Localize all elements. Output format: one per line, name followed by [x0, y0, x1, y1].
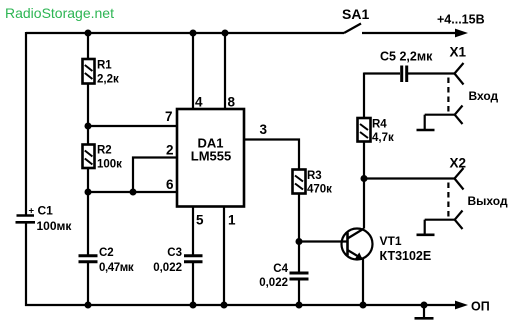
capacitor C1 labels	[37, 204, 73, 234]
switch SA1 blade	[344, 24, 361, 34]
connector X2 pin	[455, 168, 464, 190]
wire pin 6	[88, 191, 177, 193]
svg-text:8: 8	[228, 95, 236, 110]
svg-text:LM555: LM555	[191, 149, 231, 164]
svg-text:2: 2	[166, 143, 174, 158]
ground X1	[417, 115, 435, 130]
svg-text:C4: C4	[273, 263, 288, 275]
pin 8 label	[228, 95, 236, 110]
wire R3 bottom to C4	[298, 194, 300, 274]
svg-text:C5 2,2мк: C5 2,2мк	[380, 50, 433, 64]
switch SA1 label	[342, 6, 369, 22]
wire pin 3	[244, 140, 299, 170]
wire pin 8	[224, 33, 226, 109]
wire R4 top to C5 corner	[364, 73, 400, 119]
svg-text:0,47мк: 0,47мк	[99, 262, 134, 274]
connector X1 pin	[455, 63, 464, 85]
op-amp U1 timer DA1 labels	[191, 136, 231, 164]
resistor R1	[83, 59, 95, 84]
node Vyhod label	[468, 194, 508, 208]
capacitor C5	[402, 66, 407, 83]
svg-text:4,7к: 4,7к	[372, 132, 394, 144]
svg-text:R3: R3	[307, 170, 322, 182]
wire bottom rail	[25, 304, 456, 306]
resistor R2	[83, 145, 95, 169]
wire X2	[364, 177, 455, 179]
svg-text:100мк: 100мк	[37, 219, 73, 233]
node OP label	[471, 300, 490, 314]
node +4...15V arrowhead	[455, 29, 468, 38]
wire R2 bottom through node to C2	[87, 168, 89, 256]
svg-text:VT1: VT1	[380, 234, 402, 248]
resistor R3 labels	[307, 170, 332, 196]
svg-text:2,2к: 2,2к	[97, 74, 119, 86]
capacitor C3	[184, 256, 203, 262]
pin 5 label	[196, 213, 204, 228]
wire pin 4	[192, 33, 194, 109]
svg-text:6: 6	[166, 177, 174, 192]
svg-text:+: +	[29, 206, 35, 217]
node junction base	[296, 238, 303, 245]
pin 1 label	[228, 213, 236, 228]
connector X2 mate	[425, 211, 463, 230]
node junction top rail pin8	[222, 30, 229, 37]
svg-text:R2: R2	[97, 145, 112, 157]
wire left rail lower	[25, 222, 27, 306]
resistor R4	[358, 118, 371, 142]
pin 7 label	[165, 109, 173, 124]
transistor Q1 VT1	[342, 229, 373, 261]
node junction pin1 bottom rail	[221, 302, 228, 309]
node junction pin7	[85, 123, 92, 130]
pin 2 label	[166, 143, 174, 158]
wire X1 dashed	[447, 78, 449, 113]
svg-text:SA1: SA1	[342, 6, 369, 22]
capacitor C5 label	[380, 50, 433, 64]
transistor VT1 labels	[380, 234, 432, 263]
wire pin 1	[223, 207, 225, 306]
wire left rail upper	[25, 32, 27, 216]
node junction C2 bottom rail	[85, 302, 92, 309]
wire pin 7	[88, 125, 177, 127]
wire C2 bottom	[87, 262, 89, 305]
svg-text:4: 4	[195, 95, 203, 110]
node junction top rail pin4	[190, 30, 197, 37]
svg-text:Вход: Вход	[469, 89, 499, 103]
svg-text:0,022: 0,022	[259, 277, 288, 289]
resistor R3	[293, 170, 306, 194]
wire pin 5	[192, 207, 194, 256]
node junction emitter bottom rail	[360, 302, 367, 309]
svg-text:100к: 100к	[97, 159, 122, 171]
capacitor C4 labels	[259, 263, 288, 289]
wire C5 to X1	[408, 72, 455, 74]
pin 4 label	[195, 95, 203, 110]
capacitor C3 labels	[153, 247, 182, 274]
svg-text:RadioStorage.net: RadioStorage.net	[5, 5, 114, 21]
svg-text:0,022: 0,022	[153, 262, 182, 274]
wire top rail left segment	[26, 32, 344, 34]
node Vhod label	[469, 89, 499, 103]
node junction X2	[361, 175, 368, 182]
node junction pin2/pin6	[130, 189, 137, 196]
wire base	[299, 240, 347, 242]
wire emitter down	[362, 259, 364, 305]
svg-text:R1: R1	[97, 60, 112, 72]
node OP arrowhead	[455, 301, 468, 310]
svg-text:7: 7	[165, 109, 173, 124]
svg-text:C2: C2	[99, 247, 114, 259]
pin 6 label	[166, 177, 174, 192]
capacitor C1	[16, 206, 36, 223]
node +4...15V label	[437, 13, 485, 27]
svg-text:5: 5	[196, 213, 204, 228]
wire collector / R4 line top	[363, 142, 365, 229]
svg-text:+4...15В: +4...15В	[437, 13, 485, 27]
capacitor C2	[79, 256, 98, 262]
pin 3 label	[260, 122, 268, 137]
connector X2 label	[450, 156, 467, 171]
svg-text:ОП: ОП	[471, 300, 490, 314]
svg-text:X2: X2	[450, 156, 467, 171]
node junction C3 bottom rail	[190, 302, 197, 309]
svg-text:КТ3102Е: КТ3102Е	[380, 249, 432, 263]
svg-text:1: 1	[228, 213, 236, 228]
wire C4 bottom	[298, 279, 300, 305]
resistor R4 labels	[372, 119, 394, 145]
svg-text:C3: C3	[167, 247, 182, 259]
svg-text:X1: X1	[450, 45, 467, 60]
op-amp U1 timer DA1 body	[177, 109, 244, 207]
svg-text:C1: C1	[38, 204, 54, 218]
ground X2	[417, 220, 435, 235]
svg-text:Выход: Выход	[468, 194, 508, 208]
wire R1 top stub	[87, 33, 89, 59]
ground at OP rail	[415, 302, 434, 319]
node junction pin6 left	[85, 189, 92, 196]
connector X1 label	[450, 45, 467, 60]
svg-text:R4: R4	[372, 119, 387, 131]
wire X2 dashed	[447, 183, 449, 218]
svg-text:470к: 470к	[307, 184, 332, 196]
node junction top rail R1	[85, 30, 92, 37]
node junction C4 bottom rail	[296, 302, 303, 309]
logo RadioStorage.net	[5, 5, 114, 21]
svg-text:3: 3	[260, 122, 268, 137]
wire R1 bottom to node	[87, 84, 89, 145]
wire pin 2	[133, 158, 177, 193]
wire C3 bottom	[192, 262, 194, 305]
wire top rail right segment	[362, 32, 456, 34]
connector X1 mate	[425, 106, 463, 125]
capacitor C4	[290, 273, 309, 279]
resistor R1 labels	[97, 60, 119, 86]
resistor R2 labels	[97, 145, 122, 171]
capacitor C2 labels	[99, 247, 134, 274]
